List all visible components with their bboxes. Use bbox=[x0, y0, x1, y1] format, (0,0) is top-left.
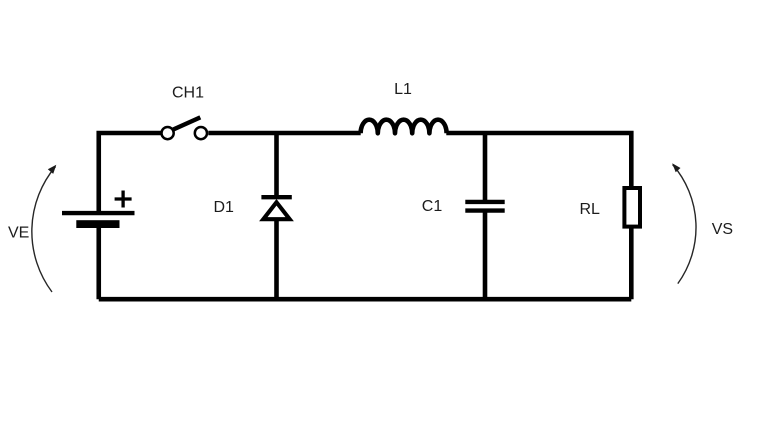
svg-text:VE: VE bbox=[8, 224, 29, 241]
inductor L1 bbox=[361, 120, 447, 134]
wire: capacitor branch upper segment bbox=[483, 133, 488, 202]
diode D1 bbox=[261, 197, 291, 219]
wire: diode branch lower segment bbox=[274, 219, 279, 299]
battery VE bbox=[62, 191, 135, 229]
svg-text:CH1: CH1 bbox=[172, 85, 204, 102]
wire: diode branch upper segment bbox=[274, 133, 279, 197]
label C1 bbox=[422, 198, 443, 215]
label D1 bbox=[213, 199, 234, 216]
svg-text:C1: C1 bbox=[422, 198, 443, 215]
wire: inductor to top-right corner down to resistor bbox=[446, 133, 631, 188]
svg-text:VS: VS bbox=[712, 221, 733, 238]
wire: resistor bottom to bottom-right corner bbox=[629, 228, 634, 299]
wire: bottom rail bbox=[99, 297, 632, 302]
label CH1 bbox=[172, 85, 204, 102]
svg-text:RL: RL bbox=[579, 201, 600, 218]
label VE bbox=[8, 224, 29, 241]
svg-text:D1: D1 bbox=[213, 199, 234, 216]
wire: switch to inductor segment bbox=[208, 131, 360, 136]
resistor RL bbox=[624, 188, 640, 227]
wire: left branch up + top-left segment to switch bbox=[99, 133, 161, 212]
arrow VE (left curved arrow) bbox=[32, 165, 56, 292]
capacitor C1 bbox=[465, 202, 504, 211]
switch CH1 bbox=[162, 117, 207, 139]
arrow VS (right curved arrow) bbox=[672, 163, 696, 283]
label L1 bbox=[394, 81, 412, 98]
wire: capacitor branch lower segment bbox=[483, 211, 488, 300]
svg-text:L1: L1 bbox=[394, 81, 412, 98]
label VS bbox=[712, 221, 733, 238]
label RL bbox=[579, 201, 600, 218]
wire: battery negative to bottom rail bbox=[96, 224, 101, 299]
